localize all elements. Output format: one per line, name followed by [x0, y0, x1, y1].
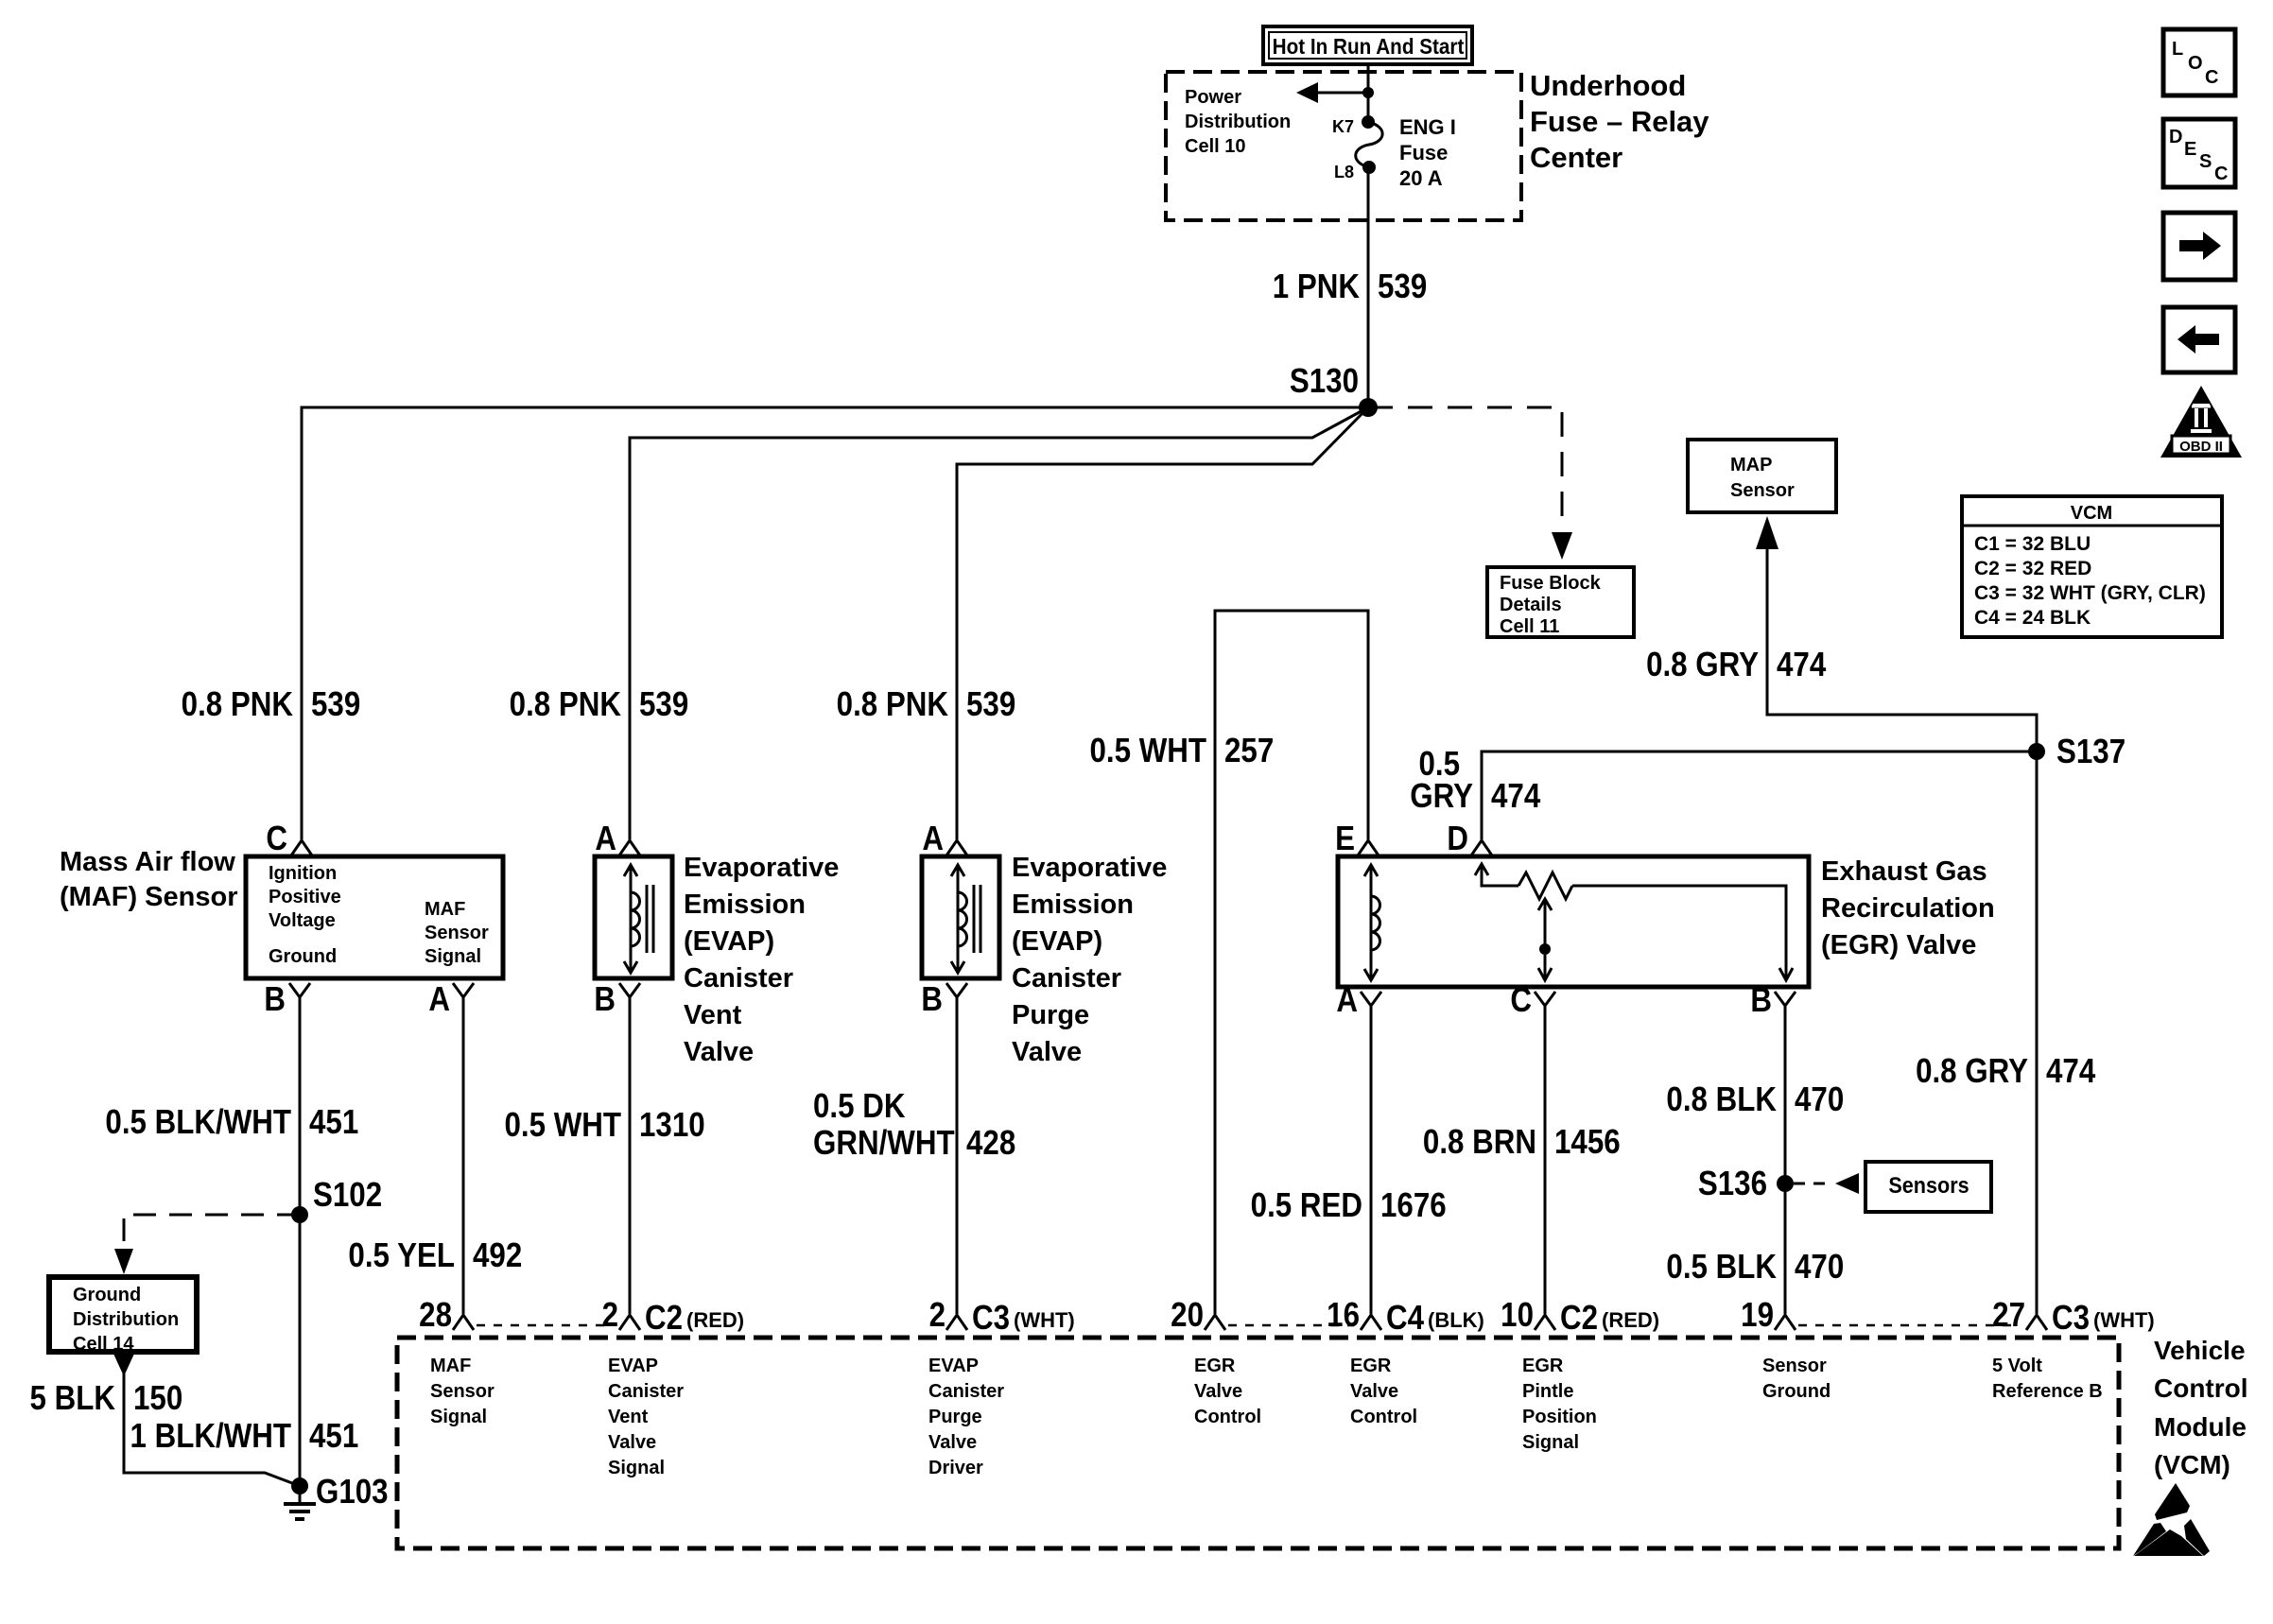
EGR valve box: [1338, 856, 1809, 987]
svg-text:C3: C3: [972, 1299, 1010, 1338]
svg-text:Valve: Valve: [684, 1037, 754, 1067]
svg-text:L: L: [2172, 39, 2183, 60]
svg-text:(RED): (RED): [1602, 1308, 1659, 1332]
svg-text:0.8 GRY: 0.8 GRY: [1916, 1052, 2028, 1091]
svg-text:Valve: Valve: [1194, 1381, 1242, 1402]
svg-text:B: B: [264, 980, 286, 1019]
svg-text:Canister: Canister: [1012, 963, 1121, 993]
VCM pin 28: [453, 1315, 474, 1330]
svg-text:O: O: [2188, 53, 2203, 74]
svg-text:Ground: Ground: [1762, 1381, 1831, 1402]
ESD sensitivity symbol: [2133, 1483, 2210, 1556]
svg-text:Control: Control: [1194, 1407, 1261, 1427]
wire MAF B to G103 (ground wire): [299, 997, 302, 1486]
svg-text:Distribution: Distribution: [1185, 112, 1291, 132]
EVAP purge valve coil: [957, 866, 960, 972]
wire EGR C to VCM pin 10: [1544, 1006, 1547, 1314]
pin A of EGR valve: [1361, 992, 1381, 1006]
svg-text:470: 470: [1795, 1080, 1844, 1119]
junction dot above K7: [1362, 87, 1374, 98]
svg-text:5 BLK: 5 BLK: [30, 1379, 116, 1418]
svg-text:Vent: Vent: [608, 1407, 649, 1427]
arrow out of Ground Distribution box: [113, 1354, 134, 1376]
svg-text:EVAP: EVAP: [928, 1356, 979, 1376]
wire S137 to VCM pin 27: [2036, 752, 2039, 1314]
svg-text:474: 474: [2046, 1052, 2095, 1091]
svg-text:A: A: [595, 820, 616, 858]
wire EGR pin D to S137 (0.5 GRY 474): [1482, 752, 2037, 839]
VCM pin 2 C2 (RED): [619, 1315, 640, 1330]
VCM pin 2 C3 (WHT): [946, 1315, 967, 1330]
box Ground Distribution Cell 14: [49, 1277, 197, 1352]
svg-text:Vehicle: Vehicle: [2154, 1336, 2246, 1365]
svg-text:Positive: Positive: [269, 887, 341, 907]
svg-text:0.5 YEL: 0.5 YEL: [348, 1236, 455, 1275]
svg-text:Sensor: Sensor: [1762, 1356, 1827, 1376]
svg-text:(EGR) Valve: (EGR) Valve: [1821, 930, 1976, 960]
pin A of EVAP vent valve: [619, 840, 640, 855]
svg-text:Driver: Driver: [928, 1458, 983, 1478]
svg-text:Canister: Canister: [684, 963, 793, 993]
svg-text:492: 492: [473, 1236, 522, 1275]
fuse ENG I 20 A: [1356, 122, 1382, 167]
EGR pintle wiper: [1544, 900, 1547, 979]
dashed link pin 19 to pin 27: [1798, 1324, 2020, 1327]
svg-text:Mass Air flow: Mass Air flow: [60, 847, 235, 877]
svg-text:257: 257: [1224, 732, 1274, 770]
EGR potentiometer: [1475, 864, 1488, 875]
svg-text:Canister: Canister: [928, 1381, 1004, 1402]
svg-text:EGR: EGR: [1194, 1356, 1236, 1376]
svg-text:474: 474: [1491, 777, 1540, 816]
svg-text:0.5 DK: 0.5 DK: [813, 1087, 906, 1126]
svg-text:VCM: VCM: [2071, 503, 2112, 524]
svg-text:(EVAP): (EVAP): [684, 926, 774, 957]
svg-text:GRN/WHT: GRN/WHT: [813, 1124, 955, 1163]
svg-text:A: A: [428, 980, 450, 1019]
svg-text:EGR: EGR: [1350, 1356, 1392, 1376]
svg-text:A: A: [922, 820, 944, 858]
svg-text:Ground: Ground: [73, 1285, 141, 1305]
svg-text:27: 27: [1992, 1296, 2025, 1335]
svg-text:0.5 BLK: 0.5 BLK: [1666, 1248, 1777, 1287]
dashed wire S102 to Ground Distribution: [124, 1215, 300, 1246]
svg-text:C: C: [1510, 981, 1532, 1020]
svg-text:0.5 WHT: 0.5 WHT: [1089, 732, 1206, 770]
svg-text:OBD II: OBD II: [2179, 439, 2223, 455]
svg-text:451: 451: [309, 1417, 358, 1456]
wire EGR pin E to VCM pin 20 (0.5 WHT 257): [1215, 611, 1368, 1314]
node S137: [2028, 743, 2045, 760]
svg-text:539: 539: [311, 685, 360, 724]
arrow to Power Distribution: [1317, 92, 1368, 95]
svg-text:Cell 11: Cell 11: [1500, 616, 1559, 637]
pin A of MAF: [453, 983, 474, 997]
svg-text:C4: C4: [1386, 1299, 1424, 1338]
svg-text:S136: S136: [1698, 1165, 1767, 1203]
svg-text:C: C: [2214, 164, 2228, 184]
svg-text:D: D: [1447, 820, 1468, 858]
svg-text:Module: Module: [2154, 1412, 2247, 1442]
dashed wire S136 to Sensors: [1794, 1183, 1832, 1185]
svg-text:539: 539: [1378, 268, 1427, 306]
svg-text:28: 28: [419, 1296, 452, 1335]
svg-text:Pintle: Pintle: [1522, 1381, 1573, 1402]
svg-text:Signal: Signal: [430, 1407, 487, 1427]
svg-text:Distribution: Distribution: [73, 1309, 179, 1330]
icon arrow left: [2163, 307, 2235, 372]
svg-text:Control: Control: [1350, 1407, 1417, 1427]
svg-text:Underhood: Underhood: [1530, 69, 1686, 102]
VCM pin 10 C2 (RED): [1535, 1315, 1555, 1330]
icon OBD II triangle: [2160, 386, 2242, 458]
svg-text:Canister: Canister: [608, 1381, 684, 1402]
svg-text:1 PNK: 1 PNK: [1273, 268, 1361, 306]
EVAP purge valve box: [922, 856, 999, 978]
pin B of EVAP purge valve: [946, 983, 967, 997]
svg-text:Valve: Valve: [1012, 1037, 1082, 1067]
svg-text:E: E: [1335, 820, 1355, 858]
pin E of EGR valve: [1358, 840, 1379, 855]
pin C of MAF: [291, 840, 312, 855]
svg-text:Signal: Signal: [608, 1458, 665, 1478]
svg-text:Hot In Run And Start: Hot In Run And Start: [1273, 34, 1465, 59]
svg-text:2: 2: [929, 1296, 946, 1335]
svg-text:Signal: Signal: [425, 946, 481, 967]
svg-text:Emission: Emission: [684, 890, 806, 920]
svg-text:539: 539: [639, 685, 688, 724]
svg-text:0.5 RED: 0.5 RED: [1251, 1186, 1362, 1225]
wire from Hot In Run into fuse block: [1367, 64, 1370, 122]
svg-text:(RED): (RED): [686, 1308, 744, 1332]
svg-text:S137: S137: [2056, 733, 2126, 771]
svg-text:150: 150: [133, 1379, 182, 1418]
Vehicle Control Module dashed box: [397, 1338, 2119, 1548]
EGR valve solenoid coil: [1370, 866, 1373, 979]
svg-text:(WHT): (WHT): [1014, 1308, 1075, 1332]
svg-text:Exhaust Gas: Exhaust Gas: [1821, 856, 1987, 887]
svg-text:451: 451: [309, 1103, 358, 1142]
pin A of EVAP purge valve: [946, 840, 967, 855]
Underhood Fuse-Relay Center dashed box: [1166, 72, 1521, 220]
svg-text:0.5 BLK/WHT: 0.5 BLK/WHT: [105, 1103, 291, 1142]
svg-text:Fuse – Relay: Fuse – Relay: [1530, 105, 1709, 138]
svg-text:Control: Control: [2154, 1373, 2248, 1403]
svg-text:S102: S102: [313, 1176, 382, 1215]
svg-text:539: 539: [966, 685, 1015, 724]
svg-text:0.5 WHT: 0.5 WHT: [504, 1106, 621, 1145]
wire MAF A to VCM pin 28 (MAF signal): [462, 997, 465, 1314]
EVAP vent valve box: [595, 856, 672, 978]
svg-text:D: D: [2169, 127, 2182, 147]
VCM pin 19: [1775, 1315, 1796, 1330]
svg-text:Ground: Ground: [269, 946, 337, 967]
svg-text:20: 20: [1171, 1296, 1204, 1335]
svg-text:C1 = 32 BLU: C1 = 32 BLU: [1974, 533, 2091, 555]
wire EVAP vent B to VCM pin 2 C2: [629, 997, 632, 1314]
svg-text:Cell 14: Cell 14: [73, 1334, 134, 1355]
svg-text:0.8 GRY: 0.8 GRY: [1646, 646, 1759, 684]
svg-text:GRY: GRY: [1410, 777, 1473, 816]
svg-text:Valve: Valve: [1350, 1381, 1398, 1402]
svg-text:Evaporative: Evaporative: [1012, 853, 1167, 883]
svg-text:Fuse: Fuse: [1399, 141, 1448, 164]
svg-text:Sensor: Sensor: [1730, 480, 1795, 501]
pin B of EGR valve: [1775, 992, 1796, 1006]
svg-text:428: 428: [966, 1124, 1015, 1163]
svg-text:Voltage: Voltage: [269, 910, 336, 931]
svg-text:Sensor: Sensor: [425, 923, 489, 943]
svg-text:1310: 1310: [639, 1106, 705, 1145]
wire Ground Distribution to G103: [124, 1373, 300, 1486]
svg-text:0.8 PNK: 0.8 PNK: [182, 685, 294, 724]
svg-text:Sensor: Sensor: [430, 1381, 495, 1402]
junction box: Hot In Run And Start title: [1263, 26, 1472, 64]
wire fuse L8 to S130 (1 PNK 539): [1367, 167, 1370, 407]
svg-text:16: 16: [1327, 1296, 1360, 1335]
svg-text:C: C: [2205, 67, 2218, 88]
svg-text:E: E: [2184, 139, 2196, 160]
wire S130 to MAF pin C: [302, 407, 1368, 839]
pin C of EGR valve: [1535, 992, 1555, 1006]
svg-text:0.8 PNK: 0.8 PNK: [837, 685, 949, 724]
pin B of MAF: [289, 983, 310, 997]
svg-text:A: A: [1336, 981, 1358, 1020]
svg-text:Ignition: Ignition: [269, 863, 337, 884]
svg-text:0.8 BLK: 0.8 BLK: [1666, 1080, 1777, 1119]
node S102: [291, 1206, 308, 1223]
svg-text:1456: 1456: [1554, 1123, 1621, 1162]
svg-text:Purge: Purge: [1012, 1000, 1089, 1030]
svg-text:Fuse Block: Fuse Block: [1500, 573, 1602, 594]
ground G103: [291, 1477, 308, 1494]
dashed link pin 20 to pin 16: [1228, 1324, 1354, 1327]
MAP Sensor box: [1688, 440, 1836, 512]
svg-text:Valve: Valve: [608, 1432, 656, 1453]
icon arrow right: [2163, 213, 2235, 280]
wire to MAP sensor with arrow: [1767, 546, 2037, 752]
wire S130 to EVAP vent pin A: [630, 407, 1368, 839]
svg-text:C2: C2: [1560, 1299, 1598, 1338]
svg-text:5 Volt: 5 Volt: [1992, 1356, 2042, 1376]
VCM connector legend box: [1962, 496, 2222, 637]
svg-text:MAF: MAF: [425, 899, 465, 920]
svg-text:20 A: 20 A: [1399, 166, 1443, 190]
wire EVAP purge B to VCM pin 2 C3: [956, 997, 959, 1314]
svg-text:474: 474: [1777, 646, 1826, 684]
svg-text:B: B: [921, 980, 943, 1019]
svg-text:B: B: [1750, 981, 1772, 1020]
svg-text:19: 19: [1741, 1296, 1774, 1335]
svg-text:B: B: [594, 980, 616, 1019]
svg-text:0.8 PNK: 0.8 PNK: [510, 685, 622, 724]
svg-text:(BLK): (BLK): [1428, 1308, 1484, 1332]
wire S130 to EVAP purge pin A: [957, 407, 1368, 839]
VCM pin 20: [1205, 1315, 1225, 1330]
box Sensors: [1865, 1162, 1991, 1212]
svg-text:Power: Power: [1185, 87, 1241, 108]
svg-text:EVAP: EVAP: [608, 1356, 658, 1376]
svg-text:470: 470: [1795, 1248, 1844, 1287]
svg-text:2: 2: [602, 1296, 618, 1335]
svg-text:Details: Details: [1500, 595, 1562, 615]
svg-text:C4 = 24 BLK: C4 = 24 BLK: [1974, 607, 2091, 629]
svg-text:(EVAP): (EVAP): [1012, 926, 1102, 957]
box Fuse Block Details Cell 11: [1487, 567, 1634, 637]
icon DESC: [2163, 119, 2235, 187]
dashed link pin 28 to pin 2: [477, 1324, 613, 1327]
dashed wire S130 to Fuse Block Details: [1368, 407, 1562, 529]
svg-text:Purge: Purge: [928, 1407, 982, 1427]
svg-text:S: S: [2199, 151, 2212, 172]
VCM pin 16 C4 (BLK): [1361, 1315, 1381, 1330]
pin D of EGR valve: [1471, 840, 1492, 855]
svg-text:Sensors: Sensors: [1888, 1172, 1969, 1198]
svg-text:(WHT): (WHT): [2093, 1308, 2155, 1332]
svg-text:0.8 BRN: 0.8 BRN: [1423, 1123, 1536, 1162]
VCM pin 27 C3 (WHT): [2026, 1315, 2047, 1330]
MAF sensor box: [246, 856, 503, 978]
svg-text:MAP: MAP: [1730, 455, 1772, 475]
svg-text:Position: Position: [1522, 1407, 1597, 1427]
node S130: [1359, 398, 1378, 417]
svg-text:Vent: Vent: [684, 1000, 742, 1030]
svg-text:C: C: [266, 820, 287, 858]
svg-text:Emission: Emission: [1012, 890, 1134, 920]
svg-text:Evaporative: Evaporative: [684, 853, 839, 883]
wire EGR A to VCM pin 16: [1370, 1006, 1373, 1314]
svg-text:Signal: Signal: [1522, 1432, 1579, 1453]
svg-text:10: 10: [1501, 1296, 1534, 1335]
svg-text:Valve: Valve: [928, 1432, 977, 1453]
svg-text:Cell 10: Cell 10: [1185, 136, 1245, 157]
svg-text:G103: G103: [316, 1473, 389, 1512]
svg-text:(MAF) Sensor: (MAF) Sensor: [60, 882, 238, 912]
svg-text:MAF: MAF: [430, 1356, 471, 1376]
EVAP vent valve coil: [630, 866, 633, 972]
node S136: [1777, 1175, 1794, 1192]
svg-text:K7: K7: [1332, 117, 1354, 136]
svg-text:EGR: EGR: [1522, 1356, 1564, 1376]
svg-text:L8: L8: [1334, 163, 1354, 181]
icon LOC: [2163, 29, 2235, 95]
svg-text:S130: S130: [1290, 362, 1359, 401]
wire EGR B to VCM pin 19: [1784, 1006, 1787, 1314]
terminal L8: [1362, 161, 1376, 174]
svg-text:1 BLK/WHT: 1 BLK/WHT: [130, 1417, 292, 1456]
svg-text:C2 = 32 RED: C2 = 32 RED: [1974, 558, 2091, 579]
svg-text:Center: Center: [1530, 141, 1622, 174]
pin B of EVAP vent valve: [619, 983, 640, 997]
svg-text:(VCM): (VCM): [2154, 1450, 2230, 1479]
svg-text:C3 = 32 WHT (GRY, CLR): C3 = 32 WHT (GRY, CLR): [1974, 582, 2206, 604]
svg-text:ENG I: ENG I: [1399, 115, 1456, 139]
terminal K7: [1362, 115, 1375, 129]
svg-text:Reference B: Reference B: [1992, 1381, 2103, 1402]
svg-text:C3: C3: [2052, 1299, 2090, 1338]
svg-text:C2: C2: [645, 1299, 683, 1338]
svg-text:Recirculation: Recirculation: [1821, 893, 1995, 924]
svg-text:1676: 1676: [1380, 1186, 1447, 1225]
